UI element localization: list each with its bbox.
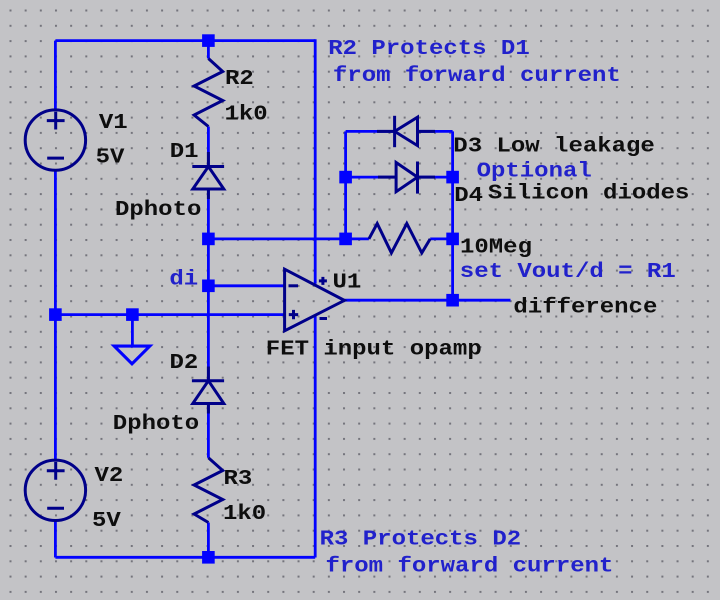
wire left rail lower	[54, 521, 57, 558]
wire right supply rail lower	[314, 316, 317, 558]
svg-text:1k0: 1k0	[225, 102, 268, 126]
wire D1 to D2 through di node	[207, 189, 210, 381]
resistor R3	[194, 458, 223, 523]
wire R2 top lead	[207, 41, 210, 59]
diode D4	[378, 162, 435, 194]
svg-text:U1: U1	[333, 270, 362, 294]
svg-text:from forward current: from forward current	[326, 554, 614, 578]
svg-text:D2: D2	[170, 350, 199, 374]
wire D3 right lead	[418, 130, 453, 133]
wire to D3 anode side	[346, 130, 395, 133]
node junction ground tap	[126, 308, 139, 321]
node junction feedback left D4	[339, 171, 352, 184]
wire R2 to D1	[207, 127, 210, 167]
wire R1 left lead	[346, 237, 369, 240]
wire summing node to R1	[208, 237, 345, 240]
node junction feedback right D4	[446, 171, 459, 184]
node di	[202, 280, 215, 293]
svg-text:Dphoto: Dphoto	[113, 411, 199, 435]
diode D1	[192, 152, 224, 199]
voltage source V2	[25, 460, 85, 520]
wire D4 left lead	[346, 176, 397, 179]
node junction summing	[202, 233, 215, 246]
wire bottom bus	[55, 556, 315, 559]
svg-text:di: di	[169, 267, 198, 291]
ground	[114, 346, 150, 364]
svg-text:Optional: Optional	[477, 159, 592, 183]
wire R1 right lead	[430, 237, 452, 240]
svg-text:R3: R3	[224, 466, 253, 490]
svg-text:V2: V2	[95, 463, 124, 487]
wire ground net to noninverting input	[55, 313, 284, 316]
svg-text:R2: R2	[225, 66, 254, 90]
svg-text:1k0: 1k0	[223, 501, 266, 525]
svg-text:FET input opamp: FET input opamp	[266, 337, 482, 361]
svg-text:R3 Protects D2: R3 Protects D2	[320, 527, 522, 551]
wire feedback left rail	[344, 131, 347, 239]
svg-text:difference: difference	[513, 295, 657, 319]
wire left rail middle	[54, 171, 57, 460]
node junction output	[446, 294, 459, 307]
voltage source V1	[25, 110, 85, 170]
svg-text:D3 Low leakage: D3 Low leakage	[453, 134, 655, 158]
wire di node to inverting input	[208, 284, 284, 287]
node junction feedback left R1	[339, 233, 352, 246]
wire R3 bottom lead	[207, 523, 210, 558]
wire D4 right lead	[418, 176, 453, 179]
svg-text:5V: 5V	[92, 508, 121, 532]
svg-text:set Vout/d = R1: set Vout/d = R1	[460, 259, 676, 283]
svg-text:V1: V1	[99, 110, 128, 134]
svg-text:from forward current: from forward current	[333, 63, 621, 87]
svg-text:Silicon diodes: Silicon diodes	[488, 181, 690, 205]
wire top bus	[55, 39, 315, 42]
svg-text:5V: 5V	[96, 145, 125, 169]
wire D2 to R3	[207, 404, 210, 458]
node junction left rail / +input	[49, 308, 62, 321]
svg-text:R2 Protects D1: R2 Protects D1	[328, 36, 530, 60]
node junction R3 bottom	[202, 551, 215, 564]
node junction R2 top	[202, 34, 215, 47]
svg-text:10Meg: 10Meg	[460, 235, 532, 259]
resistor R1	[369, 224, 430, 253]
svg-text:Dphoto: Dphoto	[115, 197, 201, 221]
svg-text:D4: D4	[454, 183, 483, 207]
op-amp U1	[285, 269, 345, 331]
node junction feedback right R1	[446, 233, 459, 246]
diode D3	[377, 116, 435, 147]
wire ground stub	[131, 315, 134, 346]
diode D2	[192, 367, 224, 414]
wire right supply rail upper	[314, 39, 317, 284]
wire opamp output	[344, 299, 510, 302]
wire left rail upper	[54, 41, 57, 110]
wire feedback right rail	[451, 131, 454, 300]
resistor R2	[194, 59, 223, 127]
svg-text:D1: D1	[170, 139, 199, 163]
